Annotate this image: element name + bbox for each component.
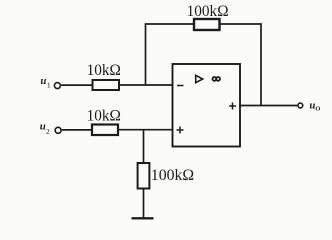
svg-text:100kΩ: 100kΩ [151,167,194,184]
svg-text:10kΩ: 10kΩ [87,108,121,125]
svg-text:10kΩ: 10kΩ [87,62,121,79]
svg-text:u: u [40,121,46,133]
svg-text:100kΩ: 100kΩ [187,3,229,20]
svg-text:2: 2 [46,127,50,136]
svg-text:u: u [40,75,46,87]
svg-text:O: O [315,106,320,113]
svg-text:1: 1 [47,81,51,90]
